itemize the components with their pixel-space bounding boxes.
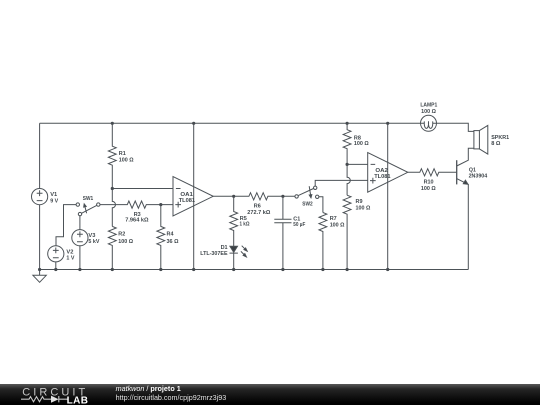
svg-text:R6: R6 bbox=[254, 204, 262, 210]
op-amp OA1 bbox=[173, 177, 213, 217]
wire top rail bbox=[40, 123, 474, 131]
svg-text:LTL-307EE: LTL-307EE bbox=[200, 251, 228, 257]
svg-text:TL081: TL081 bbox=[374, 174, 391, 180]
voltage source V1 bbox=[31, 123, 47, 269]
wire bottom rail (ground net) bbox=[40, 269, 469, 271]
LED D1 bbox=[230, 246, 248, 270]
svg-text:100 Ω: 100 Ω bbox=[421, 186, 436, 192]
switch SW2 bbox=[295, 186, 319, 198]
resistor R10 bbox=[408, 169, 457, 176]
svg-text:V1: V1 bbox=[50, 192, 58, 198]
svg-text:R9: R9 bbox=[356, 199, 364, 205]
svg-text:V3: V3 bbox=[88, 233, 96, 239]
wire OA1 minus input bbox=[112, 188, 173, 190]
wire SW2 to R7 bbox=[319, 197, 323, 213]
svg-text:SW1: SW1 bbox=[83, 196, 94, 202]
resistor R4 bbox=[157, 205, 165, 270]
svg-text:100 Ω: 100 Ω bbox=[119, 158, 134, 164]
op-amp OA2 bbox=[368, 153, 408, 193]
svg-text:R7: R7 bbox=[330, 216, 337, 222]
resistor R6 bbox=[234, 193, 295, 200]
ground bbox=[33, 270, 46, 283]
svg-text:LAMP1: LAMP1 bbox=[420, 103, 438, 109]
svg-text:8 Ω: 8 Ω bbox=[491, 141, 501, 147]
svg-text:100 Ω: 100 Ω bbox=[118, 239, 133, 245]
svg-text:9 V: 9 V bbox=[50, 199, 58, 205]
speaker SPKR1 bbox=[474, 125, 488, 154]
resistor R1 bbox=[108, 123, 116, 188]
footer bar bbox=[0, 384, 540, 405]
svg-text:V2: V2 bbox=[66, 249, 73, 255]
svg-text:R4: R4 bbox=[167, 232, 175, 238]
wire SW2 to OA2 plus input bbox=[315, 180, 368, 186]
svg-text:272.7 kΩ: 272.7 kΩ bbox=[247, 210, 270, 216]
wire OA2 power rails bbox=[387, 123, 389, 269]
wire OA1 output bbox=[213, 195, 234, 197]
voltage source V2 bbox=[48, 205, 76, 270]
resistor R8 bbox=[343, 123, 351, 164]
svg-text:R10: R10 bbox=[424, 180, 434, 186]
svg-text:2N3904: 2N3904 bbox=[469, 173, 488, 179]
svg-text:1 kΩ: 1 kΩ bbox=[240, 222, 250, 228]
resistor R9 bbox=[343, 195, 351, 269]
svg-text:SW2: SW2 bbox=[302, 202, 312, 208]
svg-text:100 Ω: 100 Ω bbox=[354, 141, 369, 147]
CircuitLab logo bbox=[0, 384, 110, 405]
wire OA2 minus input bbox=[347, 163, 368, 165]
svg-text:R1: R1 bbox=[119, 151, 127, 157]
resistor R5 bbox=[230, 196, 238, 246]
capacitor C1 bbox=[274, 196, 291, 269]
svg-text:7.964 kΩ: 7.964 kΩ bbox=[125, 218, 149, 224]
svg-text:36 Ω: 36 Ω bbox=[167, 239, 179, 245]
switch SW1 bbox=[76, 203, 100, 216]
svg-text:R2: R2 bbox=[118, 232, 125, 238]
svg-text:SPKR1: SPKR1 bbox=[491, 135, 510, 141]
svg-text:D1: D1 bbox=[221, 245, 229, 251]
resistor R3 bbox=[100, 201, 173, 208]
resistor R2 bbox=[108, 226, 116, 269]
voltage source V3 bbox=[72, 216, 88, 270]
wire R1 to R2 with hop bbox=[112, 189, 115, 227]
lamp LAMP1 bbox=[421, 115, 437, 131]
svg-text:50 µF: 50 µF bbox=[293, 222, 305, 228]
svg-text:LAB: LAB bbox=[67, 395, 89, 405]
svg-text:100 Ω: 100 Ω bbox=[356, 205, 371, 211]
svg-text:TL081: TL081 bbox=[179, 198, 196, 204]
transistor Q1 bbox=[457, 148, 474, 269]
node dots bbox=[38, 122, 389, 271]
svg-text:100 Ω: 100 Ω bbox=[330, 223, 345, 229]
resistor R7 bbox=[319, 213, 327, 270]
svg-text:1 V: 1 V bbox=[66, 255, 74, 261]
svg-text:5 kV: 5 kV bbox=[88, 239, 99, 245]
svg-text:100 Ω: 100 Ω bbox=[421, 109, 436, 115]
wire R8 to R9 with hop bbox=[347, 164, 350, 195]
wire OA1 power rails bbox=[193, 123, 195, 269]
